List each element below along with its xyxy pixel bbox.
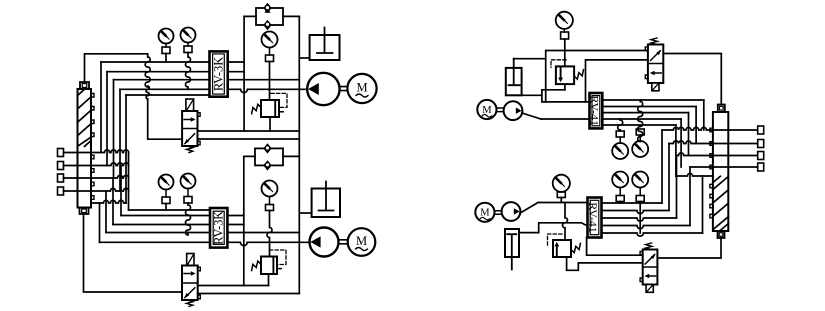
wire: A-dropper x681.1: [680, 119, 682, 167]
wire: B-riser x676.5: [676, 156, 678, 219]
port square P1: [58, 149, 64, 157]
wire: valve A right port 1 (return line y131): [198, 130, 300, 132]
wire: through-line y154 with hops: [677, 153, 758, 156]
distributor manifold (right rotary feed-through): [710, 105, 728, 239]
wire: bus R-B2 y210.5 with hop: [602, 211, 670, 214]
wire: A-dropper x703.8: [703, 100, 705, 130]
distributor top connector square: [718, 105, 725, 113]
wire: bus R-B4 y225.5 with hop: [602, 226, 691, 229]
wire: B-dropper x128.5: [128, 153, 130, 211]
hatch end notches: [91, 94, 94, 137]
svg-text:M: M: [356, 81, 367, 95]
hydraulic pump A: [307, 73, 339, 105]
port square P2: [58, 162, 64, 170]
wire: long node vertical x243.8 (bridge B left down to valve B return): [243, 156, 245, 285]
wire: bus B4 y232.5 (long, to node vertical): [106, 232, 299, 234]
wire: through-line y130 with hops: [662, 127, 758, 130]
RV-3K block A: [210, 51, 228, 96]
wire: through-line y203 with hops: [91, 200, 126, 203]
RV-3K block B: [210, 208, 227, 248]
wire: A-riser x113.5: [113, 80, 115, 178]
pressure gauge B1: [159, 175, 174, 211]
wire: B-dropper x113: [112, 178, 114, 225]
distributor top connector square: [80, 82, 89, 89]
wire: valve B right port 2 y293.5: [198, 293, 300, 295]
electric motor B: [348, 228, 376, 256]
svg-text:RV-41: RV-41: [588, 95, 602, 126]
check valve (bridge A bottom): [263, 20, 271, 30]
RV-41 block 1: [588, 93, 603, 128]
wire: RV-41 block 2 bottom port to valve R2: [587, 238, 643, 256]
wire: B-dropper x121: [120, 166, 122, 216]
wire: A-riser x120: [119, 89, 121, 191]
pressure gauge RL2: [632, 172, 648, 234]
port square P3: [58, 174, 64, 182]
wire: valve B right port 1 (return y285.5): [198, 285, 269, 287]
wire: bus R-B1 y203: [602, 202, 663, 204]
wire: A-riser x101 (bus1 to through-line): [100, 62, 102, 153]
hatch stripes: [713, 176, 728, 231]
port square PR1: [758, 126, 764, 134]
svg-text:RV-41: RV-41: [586, 202, 600, 233]
distributor manifold (left rotary feed-through): [78, 82, 95, 214]
wire: B-riser x669: [668, 144, 670, 211]
wire: bus B3 y224.5: [113, 224, 244, 226]
wire: valve R1 left port 1: [546, 51, 648, 102]
wire: distributor R bottom feed from valve R2: [657, 238, 721, 258]
wire: long node vertical x244.1 (bridge A left to return line): [243, 16, 245, 131]
shaft coupling R2: [495, 211, 502, 215]
wire: through-line y142 with hops: [669, 141, 758, 144]
port square PR3: [758, 152, 764, 160]
hatch end notches: [710, 184, 713, 218]
wire: B-riser x690: [689, 167, 691, 226]
solenoid valve R2: [640, 243, 657, 292]
relief valve B: [252, 250, 286, 286]
wire: bus R-A5 y125: [602, 124, 676, 126]
wire: through-line y165.5 with hops: [64, 163, 129, 166]
shaft coupling A: [340, 87, 348, 91]
pressure gauge RU1: [612, 119, 628, 159]
electric motor R2: [475, 203, 494, 222]
port square P4: [58, 187, 64, 195]
wire: main right vertical x299.3: [298, 16, 300, 293]
port square PR4: [758, 163, 764, 171]
hydraulic pump R2: [502, 202, 521, 221]
wire: B-dropper x106: [105, 191, 107, 233]
wire: relief R2 bottom staircase to valve R2: [567, 257, 643, 270]
hatch stripes of distributor: [78, 89, 92, 146]
tank R1: [506, 59, 590, 102]
wire: bus R-A2 y106.5: [602, 106, 696, 108]
wire: bus A4 y89.3 pump suction with hop at x244: [120, 89, 308, 92]
wire: distributor bottom supply to valve B left port: [84, 214, 183, 292]
wire: bus B5 y242.3 pump suction with hop at x244: [100, 242, 310, 245]
relief valve A: [252, 93, 287, 131]
electric motor A: [347, 74, 376, 103]
check valve bridge B: [244, 148, 299, 165]
wire: bus R-A3 y112.6: [602, 112, 688, 114]
tank A: [299, 28, 339, 61]
solenoid valve R1: [645, 38, 663, 91]
wire: bus A2 y71.7: [107, 71, 244, 73]
tank B: [299, 182, 340, 218]
wire: distributor top supply to valve A left port (hops over buses): [85, 54, 183, 139]
tank R2: [505, 229, 519, 270]
wire: bus B2 y215.5: [121, 215, 244, 217]
pressure gauge RL1: [612, 172, 628, 204]
wire: B-riser x702.5: [702, 176, 704, 233]
port square PR2: [758, 140, 764, 148]
hydraulic pump R1: [504, 101, 523, 120]
RV-41 block 2: [586, 198, 601, 238]
wire: valve R1 left port 2: [586, 60, 648, 102]
check valve (bridge A top): [263, 3, 271, 13]
wire: relief R2 top pilot vertical: [563, 203, 568, 241]
electric motor R1: [477, 100, 496, 119]
pressure gauge R2b: [553, 175, 570, 203]
pressure gauge RU2: [632, 100, 648, 157]
wire: B-dropper x99.5: [99, 203, 101, 242]
wire: through-line y166: [690, 166, 758, 168]
svg-text:RV-3K: RV-3K: [211, 211, 225, 245]
wire: relief R1 return line y89.8: [542, 89, 565, 91]
solenoid valve B: [182, 254, 200, 307]
wire: distributor R top feed from valve R1: [663, 54, 721, 105]
wire: bus A3 y79.7: [114, 79, 300, 81]
wire: A-dropper x688.5: [688, 113, 690, 156]
pressure gauge B3: [262, 181, 278, 257]
wire: bus R-A4 y119: [541, 118, 681, 120]
check valve (bridge B bottom): [263, 160, 271, 170]
pressure gauge B2 (drop with hops): [181, 174, 196, 236]
wire: A-dropper x696.1: [695, 107, 697, 144]
pressure gauge A1: [159, 29, 174, 63]
wire: bus A1 y62: [101, 61, 244, 63]
distributor bottom connector square: [80, 208, 89, 215]
pressure gauge A2 (drop with hops): [181, 28, 196, 90]
wire: through-line y176 with hop: [676, 173, 713, 176]
wire: through-line y178 with hops: [64, 175, 129, 178]
hydraulic pump B: [310, 228, 339, 257]
wire: pump R1 outlet diagonal: [522, 113, 541, 119]
wire: tank R1 vent pipe line y58.7: [514, 58, 546, 60]
wire: bus A5 y95: [126, 94, 210, 96]
relief valve R1: [551, 60, 584, 90]
distributor bottom connector square: [718, 231, 725, 238]
relief valve R2: [548, 203, 581, 258]
wire: valve A right port 2 y139: [198, 138, 300, 140]
svg-text:M: M: [356, 234, 367, 248]
shaft coupling B: [339, 240, 348, 244]
wire: bus R-A1 y100: [602, 99, 704, 101]
wire: through-line y191 with hops: [64, 188, 129, 191]
wire: B-riser x662: [661, 130, 663, 203]
wire: A-riser x107: [106, 72, 108, 166]
pressure gauge A3: [262, 32, 278, 101]
wire: tank R2 feed to RV-41 block 2: [519, 223, 588, 233]
wire: through-line y152.5 with hops: [64, 150, 129, 153]
wire: pump R2 outlet diagonal to RV-41 block 2: [520, 203, 588, 214]
wire: bus R-B3 y218 with hop: [602, 218, 677, 221]
check valve (bridge B top): [263, 143, 271, 153]
wire: A-riser x126: [125, 95, 127, 203]
wire: bus B1 y210: [129, 209, 211, 211]
solenoid valve A: [182, 99, 200, 153]
svg-text:RV-3K: RV-3K: [212, 57, 226, 91]
wire: A-dropper x675.9: [675, 125, 677, 176]
shaft coupling R1: [497, 108, 504, 112]
check valve bridge A: [244, 8, 299, 25]
pressure gauge R-top: [556, 12, 573, 67]
wire: bus R-B5 y233 with hop: [602, 233, 703, 236]
